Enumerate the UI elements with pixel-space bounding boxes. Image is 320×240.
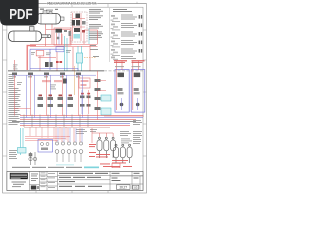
small table text bbox=[41, 173, 56, 188]
loop symbols row bbox=[55, 128, 83, 162]
svg-text:03: 03 bbox=[134, 186, 138, 190]
red capsule feeds bbox=[92, 128, 113, 143]
orange drain vertical bbox=[74, 66, 76, 95]
sheet number box bbox=[117, 185, 139, 190]
red return line below units bbox=[104, 115, 144, 117]
main bus line (dash-dot boundary) bbox=[8, 70, 104, 72]
small text under band right bbox=[76, 129, 97, 134]
red risers to mid bus bbox=[15, 45, 91, 71]
red supply risers top bbox=[30, 24, 98, 46]
manifold band lines bbox=[12, 116, 143, 128]
sheet background bbox=[0, 0, 149, 198]
blue bus line under main bbox=[12, 74, 96, 76]
blue unit box bottom bbox=[38, 140, 53, 153]
PDF badge bbox=[0, 0, 39, 26]
frame inner border bbox=[7, 7, 143, 190]
right cells text bbox=[112, 173, 140, 181]
cyan riser pair bbox=[65, 36, 82, 71]
cyan box bottom-left bbox=[18, 148, 27, 154]
dark regulator under bus bbox=[63, 79, 67, 84]
vessel B1 boiler top bbox=[37, 11, 65, 24]
logo block bbox=[10, 173, 28, 187]
red revision scribbles bottom right bbox=[89, 144, 132, 167]
legend column separator bbox=[108, 8, 110, 62]
pink collector band bottom bbox=[25, 137, 70, 141]
notes text column left bbox=[9, 74, 21, 125]
control cabinet dashed box bbox=[71, 12, 87, 42]
labels under bus bbox=[17, 82, 56, 89]
bottom descriptor cyan highlight bbox=[84, 167, 99, 169]
header folio text bbox=[46, 1, 98, 6]
legend header text bbox=[113, 9, 132, 12]
pipe red hot main elbow left bbox=[27, 46, 36, 70]
valve stack on red main right bbox=[95, 79, 101, 110]
pump station red box bbox=[54, 28, 71, 45]
fitting cluster right of pump bbox=[64, 30, 71, 36]
pink service blocks under bus bbox=[42, 80, 62, 82]
manifold drop stubs bbox=[30, 127, 66, 140]
svg-text:20.27: 20.27 bbox=[119, 186, 127, 190]
labels above capsules bbox=[121, 139, 132, 144]
frame outer border bbox=[3, 4, 147, 193]
main description text bbox=[59, 173, 108, 187]
vessel top fittings bbox=[40, 9, 58, 11]
manifold junction ticks bbox=[24, 115, 88, 128]
blue distribution drops mid zone bbox=[27, 75, 83, 117]
title block frame bbox=[7, 171, 143, 190]
cyan drops bottom-left bbox=[21, 128, 24, 155]
cabinet cyan tail bbox=[88, 28, 90, 44]
capsule group B bbox=[114, 144, 133, 163]
capsule group A bbox=[97, 137, 116, 158]
CAD stamp cell bbox=[31, 174, 39, 190]
red manifold box below bus bbox=[79, 78, 90, 88]
vessel B2 tank lower bbox=[9, 27, 51, 42]
valve pair bottom-left bbox=[29, 152, 37, 165]
orange dashed line bbox=[84, 57, 96, 59]
revision tag red box bbox=[112, 163, 120, 167]
notes text column left lower bbox=[9, 150, 17, 159]
valve cluster left of cyan tanks bbox=[80, 90, 91, 114]
grid tick marks bbox=[3, 2, 147, 193]
svg-text:PDF: PDF bbox=[9, 6, 32, 23]
header folio line bbox=[3, 3, 147, 5]
legend entries bbox=[111, 15, 143, 61]
notes text block upper middle bbox=[89, 9, 103, 57]
legend red revision notes bbox=[114, 60, 145, 63]
cyan exchanger bbox=[77, 53, 83, 63]
cyan tanks right mid bbox=[101, 95, 111, 101]
unit labels above boxes bbox=[115, 65, 141, 68]
small gray labels under red lines bbox=[31, 50, 71, 55]
bottom descriptor text row bbox=[12, 167, 82, 168]
booster pair mid bbox=[38, 58, 62, 68]
blue feed elbow above bus bbox=[30, 68, 78, 70]
text right of manifold bbox=[120, 120, 142, 144]
valve clusters under bus bbox=[12, 73, 81, 78]
red control box bbox=[36, 51, 44, 56]
unit box blue U1 bbox=[115, 70, 129, 113]
blue pipe mid bbox=[30, 47, 64, 70]
valve groups mid zone bbox=[38, 95, 74, 108]
label left of elbow bbox=[13, 65, 18, 70]
unit box blue U2 bbox=[131, 70, 145, 113]
red branch stubs off main riser bbox=[15, 81, 107, 109]
red distribution drops mid zone bbox=[15, 71, 98, 120]
red feeds above unit boxes bbox=[117, 61, 139, 70]
